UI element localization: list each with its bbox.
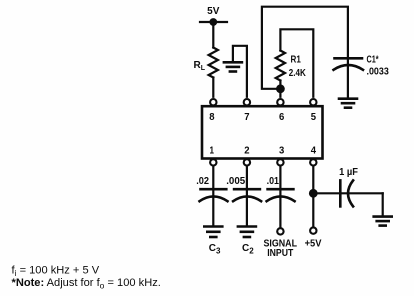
pin 8 terminal <box>210 99 216 105</box>
pin 4 terminal <box>310 159 316 165</box>
svg-text:8: 8 <box>209 111 214 123</box>
svg-text:1: 1 <box>210 145 215 157</box>
wire RL to pin 8 <box>212 78 214 97</box>
svg-text:4: 4 <box>311 145 316 157</box>
svg-text:6: 6 <box>279 111 284 123</box>
svg-text:.0033: .0033 <box>367 67 390 78</box>
wire pin 4 to +5V terminal <box>312 167 314 227</box>
ground (pin 7 stub) <box>224 46 247 97</box>
ground (C1) <box>339 99 357 108</box>
pin 7 terminal <box>244 99 250 105</box>
pin 3 terminal <box>277 159 283 165</box>
pin 6 terminal <box>277 99 283 105</box>
capacitor C1 <box>334 55 390 78</box>
ground (C3) <box>204 227 222 256</box>
wire pin 3 to input cap <box>279 167 281 228</box>
wire pin 1 to C3 <box>212 167 214 226</box>
svg-text:.02: .02 <box>196 176 209 187</box>
5V supply terminal <box>200 6 227 26</box>
wire bypass cap to ground <box>382 193 384 216</box>
capacitor 1 uF <box>339 167 358 206</box>
capacitor C3 .02 <box>196 176 227 201</box>
capacitor C2 .005 <box>226 176 261 201</box>
wire junction to pin 6 <box>279 81 281 97</box>
svg-text:R1: R1 <box>291 55 302 66</box>
svg-text:5V: 5V <box>207 6 220 17</box>
ground (C2) <box>238 227 256 256</box>
svg-text:.01: .01 <box>267 176 280 187</box>
ground (bypass) <box>374 217 392 226</box>
junction dot (R1 bottom / pin 6) <box>276 84 285 93</box>
svg-text:INPUT: INPUT <box>267 248 293 259</box>
wire junction to bypass cap <box>313 192 382 194</box>
svg-text:2: 2 <box>244 145 249 157</box>
wire 5V to RL <box>212 22 214 48</box>
svg-text:+5V: +5V <box>305 238 322 249</box>
wire inner loop: R1 top to pin 5 <box>280 29 313 97</box>
svg-text:.005: .005 <box>226 176 245 187</box>
wire pin 2 to C2 <box>246 167 248 226</box>
wire outer loop: R1 bottom to C1 top <box>262 7 348 99</box>
svg-text:5: 5 <box>311 111 316 123</box>
capacitor .01 (signal input) <box>267 176 295 201</box>
svg-text:1 µF: 1 µF <box>339 167 358 178</box>
pin 2 terminal <box>244 159 250 165</box>
svg-text:2.4K: 2.4K <box>289 68 307 79</box>
resistor R1 <box>276 51 307 81</box>
signal input terminal <box>264 228 298 259</box>
svg-text:*Note: Adjust for fo = 100 kHz: *Note: Adjust for fo = 100 kHz. <box>12 277 161 291</box>
pin 1 terminal <box>210 159 216 165</box>
svg-text:7: 7 <box>244 111 249 123</box>
+5V terminal <box>305 227 322 249</box>
junction dot (pin 4 / bypass cap) <box>309 189 318 198</box>
pin 5 terminal <box>310 99 316 105</box>
svg-text:3: 3 <box>279 145 284 157</box>
svg-text:C1*: C1* <box>367 55 379 66</box>
resistor RL <box>194 48 218 78</box>
op-amp U1 (IC body) <box>202 106 323 158</box>
